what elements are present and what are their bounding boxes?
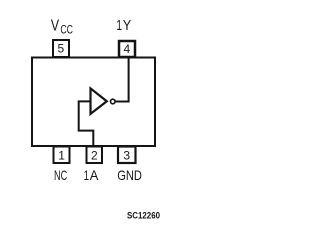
svg-text:1: 1 (116, 18, 122, 34)
svg-text:GND: GND (117, 167, 142, 183)
svg-text:4: 4 (124, 42, 131, 56)
svg-text:CC: CC (60, 25, 73, 37)
pin 4 box (119, 41, 135, 57)
wire: output net from bubble to pin 4 (1Y) (115, 58, 128, 102)
svg-text:NC: NC (54, 167, 67, 183)
Vcc label (51, 18, 73, 37)
inverter output bubble (111, 99, 116, 104)
pin 5 box (53, 40, 69, 57)
pin 3 box (118, 147, 136, 164)
IC body U1 package outline (32, 58, 155, 147)
svg-text:Y: Y (123, 18, 132, 34)
svg-text:2: 2 (91, 148, 98, 162)
svg-text:1: 1 (58, 148, 65, 162)
svg-text:V: V (51, 18, 59, 35)
inverter U1 triangle (91, 88, 107, 114)
1Y label (116, 18, 131, 34)
pin 1 box (54, 147, 70, 164)
pin 2 box (87, 147, 103, 164)
1A label (84, 167, 99, 183)
svg-text:SC12260: SC12260 (127, 211, 160, 222)
svg-text:1: 1 (84, 167, 90, 183)
svg-text:3: 3 (123, 148, 130, 162)
svg-text:5: 5 (58, 42, 65, 56)
svg-text:A: A (90, 167, 99, 183)
wire: input net from pin 2 (1A) to inverter input (79, 101, 94, 146)
